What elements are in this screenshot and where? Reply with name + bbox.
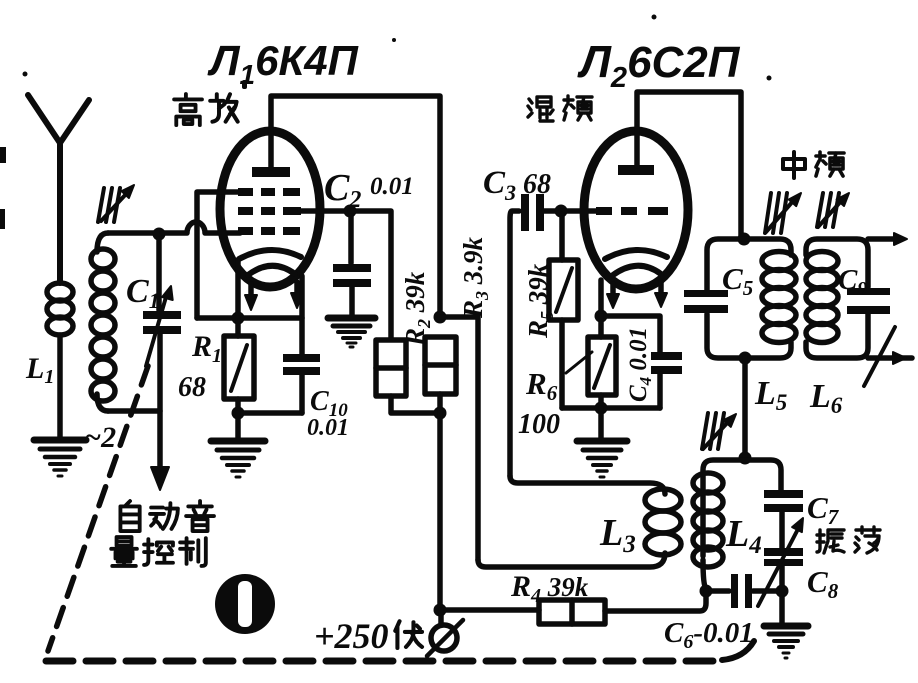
ground under L1	[34, 440, 86, 476]
label zhendang (oscillator)	[817, 527, 880, 553]
node B+ R2R3	[434, 407, 447, 420]
wire R6 bottom	[598, 395, 604, 408]
svg-text:L3: L3	[599, 512, 636, 558]
svg-text:C8: C8	[807, 564, 839, 603]
wire C8 bottom to ground	[779, 566, 785, 623]
node B+ bottom	[434, 604, 447, 617]
IF tank1 frame	[707, 239, 791, 358]
label gaofang (RF amp)	[174, 94, 238, 125]
node junction C1/L2/grid	[153, 228, 166, 241]
trimmer symbol of L4	[702, 413, 736, 449]
node C2	[344, 205, 357, 218]
wire B+ rail down	[437, 413, 443, 610]
svg-text:+250: +250	[314, 616, 389, 656]
wire cathode ground bus U2	[562, 405, 660, 411]
label fu (volts)	[395, 621, 422, 648]
svg-text:C1: C1	[126, 273, 160, 313]
label AVC line2	[111, 537, 206, 566]
wire L3 bottom side	[478, 553, 665, 567]
node L4 C6	[700, 585, 713, 598]
label AVC line1	[120, 501, 214, 531]
variable arrow of C1	[146, 286, 173, 366]
tube U1 envelope	[220, 131, 320, 287]
wire cathode U2	[598, 280, 604, 316]
node R1 top	[232, 312, 245, 325]
capacitor C8	[764, 548, 803, 566]
svg-text:C5: C5	[722, 261, 753, 300]
coil L3	[645, 489, 681, 555]
grid rows of U1	[238, 188, 301, 235]
trimmer symbol of L5	[765, 193, 801, 233]
dashed end hook	[722, 641, 754, 660]
ground under C2	[328, 318, 375, 347]
resistor R2	[376, 340, 406, 396]
wire R4 to L4	[605, 591, 706, 611]
wire plate U1 to B+ rail	[271, 96, 440, 314]
svg-text:L4: L4	[725, 513, 762, 559]
node IF tank top	[738, 233, 751, 246]
svg-text:~2: ~2	[84, 421, 116, 454]
svg-text:C3 68: C3 68	[483, 165, 551, 205]
capacitor C5	[684, 290, 728, 313]
wire plate U2 to IF tank	[637, 92, 741, 237]
tube U2 envelope	[584, 131, 688, 289]
wire L1 to ground	[57, 335, 63, 437]
wire L2 bottom to AVC line	[108, 408, 160, 414]
node ground U2	[595, 402, 608, 415]
capacitor C9	[847, 288, 890, 314]
heater arrow left U2	[607, 284, 619, 308]
ground under R6 C4	[577, 441, 627, 477]
speck marks	[0, 15, 772, 230]
svg-text:C7: C7	[807, 490, 840, 529]
wire suppressor to cathode bus	[197, 192, 240, 318]
wire R1 bottom	[235, 399, 241, 413]
plate bar of U2	[618, 165, 654, 175]
terminal +250V	[427, 610, 463, 656]
heater arrow left U1	[245, 284, 257, 310]
svg-text:R5 39k: R5 39k	[523, 263, 557, 339]
node cathode U2	[595, 310, 608, 323]
figure disc 1	[215, 574, 275, 634]
resistor R1	[224, 318, 254, 399]
svg-text:R1: R1	[191, 330, 222, 367]
svg-text:100: 100	[518, 409, 560, 440]
cathode arcs of U2	[605, 250, 667, 275]
variable slash tank2	[864, 327, 895, 386]
svg-text:L5: L5	[754, 375, 787, 415]
svg-text:R3 3.9k: R3 3.9k	[458, 236, 492, 319]
coil L1	[47, 283, 73, 335]
wire C10 bottom bus	[238, 410, 302, 416]
resistor R3	[425, 337, 456, 394]
label zhongpin (IF)	[783, 152, 844, 178]
node osc top	[739, 452, 752, 465]
node C6 C8	[776, 585, 789, 598]
svg-text:Л26С2П: Л26С2П	[577, 36, 741, 94]
wire L4 bottom	[703, 560, 706, 589]
dashed chassis diagonal	[48, 366, 148, 651]
node C3 R5 grid	[555, 205, 568, 218]
svg-text:0.01: 0.01	[370, 173, 414, 200]
capacitor C4	[651, 352, 682, 408]
svg-text:C6-0.01: C6-0.01	[664, 617, 754, 653]
coil L4	[693, 473, 723, 567]
antenna	[28, 95, 89, 283]
osc tank L4 frame	[703, 460, 781, 556]
wire cathode bus to C4	[601, 316, 660, 352]
wire C7 to C8	[779, 512, 785, 548]
wire R1 to ground	[235, 413, 241, 438]
svg-text:C9: C9	[838, 264, 867, 300]
IF tank2 frame	[806, 239, 868, 358]
wire C2 junction to R2	[350, 211, 391, 339]
node R3 top	[434, 311, 447, 324]
svg-text:L6: L6	[809, 378, 843, 418]
node R1 bottom	[232, 407, 245, 420]
grid row of U2	[596, 207, 668, 215]
heater arrow right U1	[291, 282, 303, 308]
wire tank1 to osc tank	[742, 358, 748, 458]
svg-text:R6: R6	[525, 366, 558, 405]
svg-text:R4 39k: R4 39k	[510, 570, 589, 607]
dashed chassis bottom	[46, 658, 716, 665]
svg-text:0.01: 0.01	[307, 415, 349, 441]
coil L5	[762, 252, 796, 343]
capacitor C1	[143, 239, 181, 334]
coil L6	[806, 252, 838, 343]
svg-text:Л16К4П: Л16К4П	[207, 37, 359, 90]
resistor R4	[539, 600, 605, 624]
capacitor C10	[283, 276, 320, 413]
wire C3 column	[510, 211, 519, 476]
wire R2 bottom	[391, 396, 440, 413]
wire R3 junction to L3	[440, 317, 478, 560]
wire B+ to R4	[440, 607, 539, 613]
wire IF out top arrow	[868, 233, 907, 245]
svg-text:68: 68	[178, 372, 206, 403]
variable arrow of C8	[758, 518, 803, 606]
cathode arcs of U1	[239, 250, 301, 275]
plate bar of U1	[252, 167, 290, 177]
ground under R1	[211, 441, 265, 477]
wire grid g1 with hop over suppressor wire	[162, 222, 240, 233]
wire grid U2	[561, 208, 600, 214]
trimmer symbol of L2	[98, 185, 134, 222]
svg-text:C4 0.01: C4 0.01	[625, 327, 655, 402]
wire to ground U2	[598, 408, 604, 438]
wire R5 bottom	[559, 320, 565, 408]
capacitor C3	[521, 194, 561, 231]
wire L3 top side	[510, 476, 665, 494]
heater arrow right U2	[655, 282, 667, 307]
svg-text:L1: L1	[25, 352, 54, 388]
coil L2	[91, 233, 115, 411]
wire cathode lead	[235, 260, 241, 318]
wire R3 bottom	[437, 394, 443, 413]
svg-text:C2: C2	[324, 167, 361, 213]
wire AVC down arrow	[151, 334, 169, 490]
resistor R6	[588, 316, 616, 395]
wire screen grid to C2	[300, 208, 350, 214]
ground under C8	[764, 626, 808, 658]
trimmer symbol of L6	[817, 193, 849, 227]
capacitor C2	[333, 214, 371, 315]
capacitor C6	[706, 574, 777, 608]
capacitor C7	[764, 490, 803, 512]
label hunpin (mixer)	[528, 96, 592, 121]
wire cathode bus	[197, 315, 302, 321]
node IF tank bottom	[739, 352, 752, 365]
pointer line R6	[566, 352, 592, 373]
resistor R5	[549, 214, 578, 320]
wire IF out bottom arrow	[868, 352, 912, 364]
wire L2 top to junction	[108, 230, 156, 236]
